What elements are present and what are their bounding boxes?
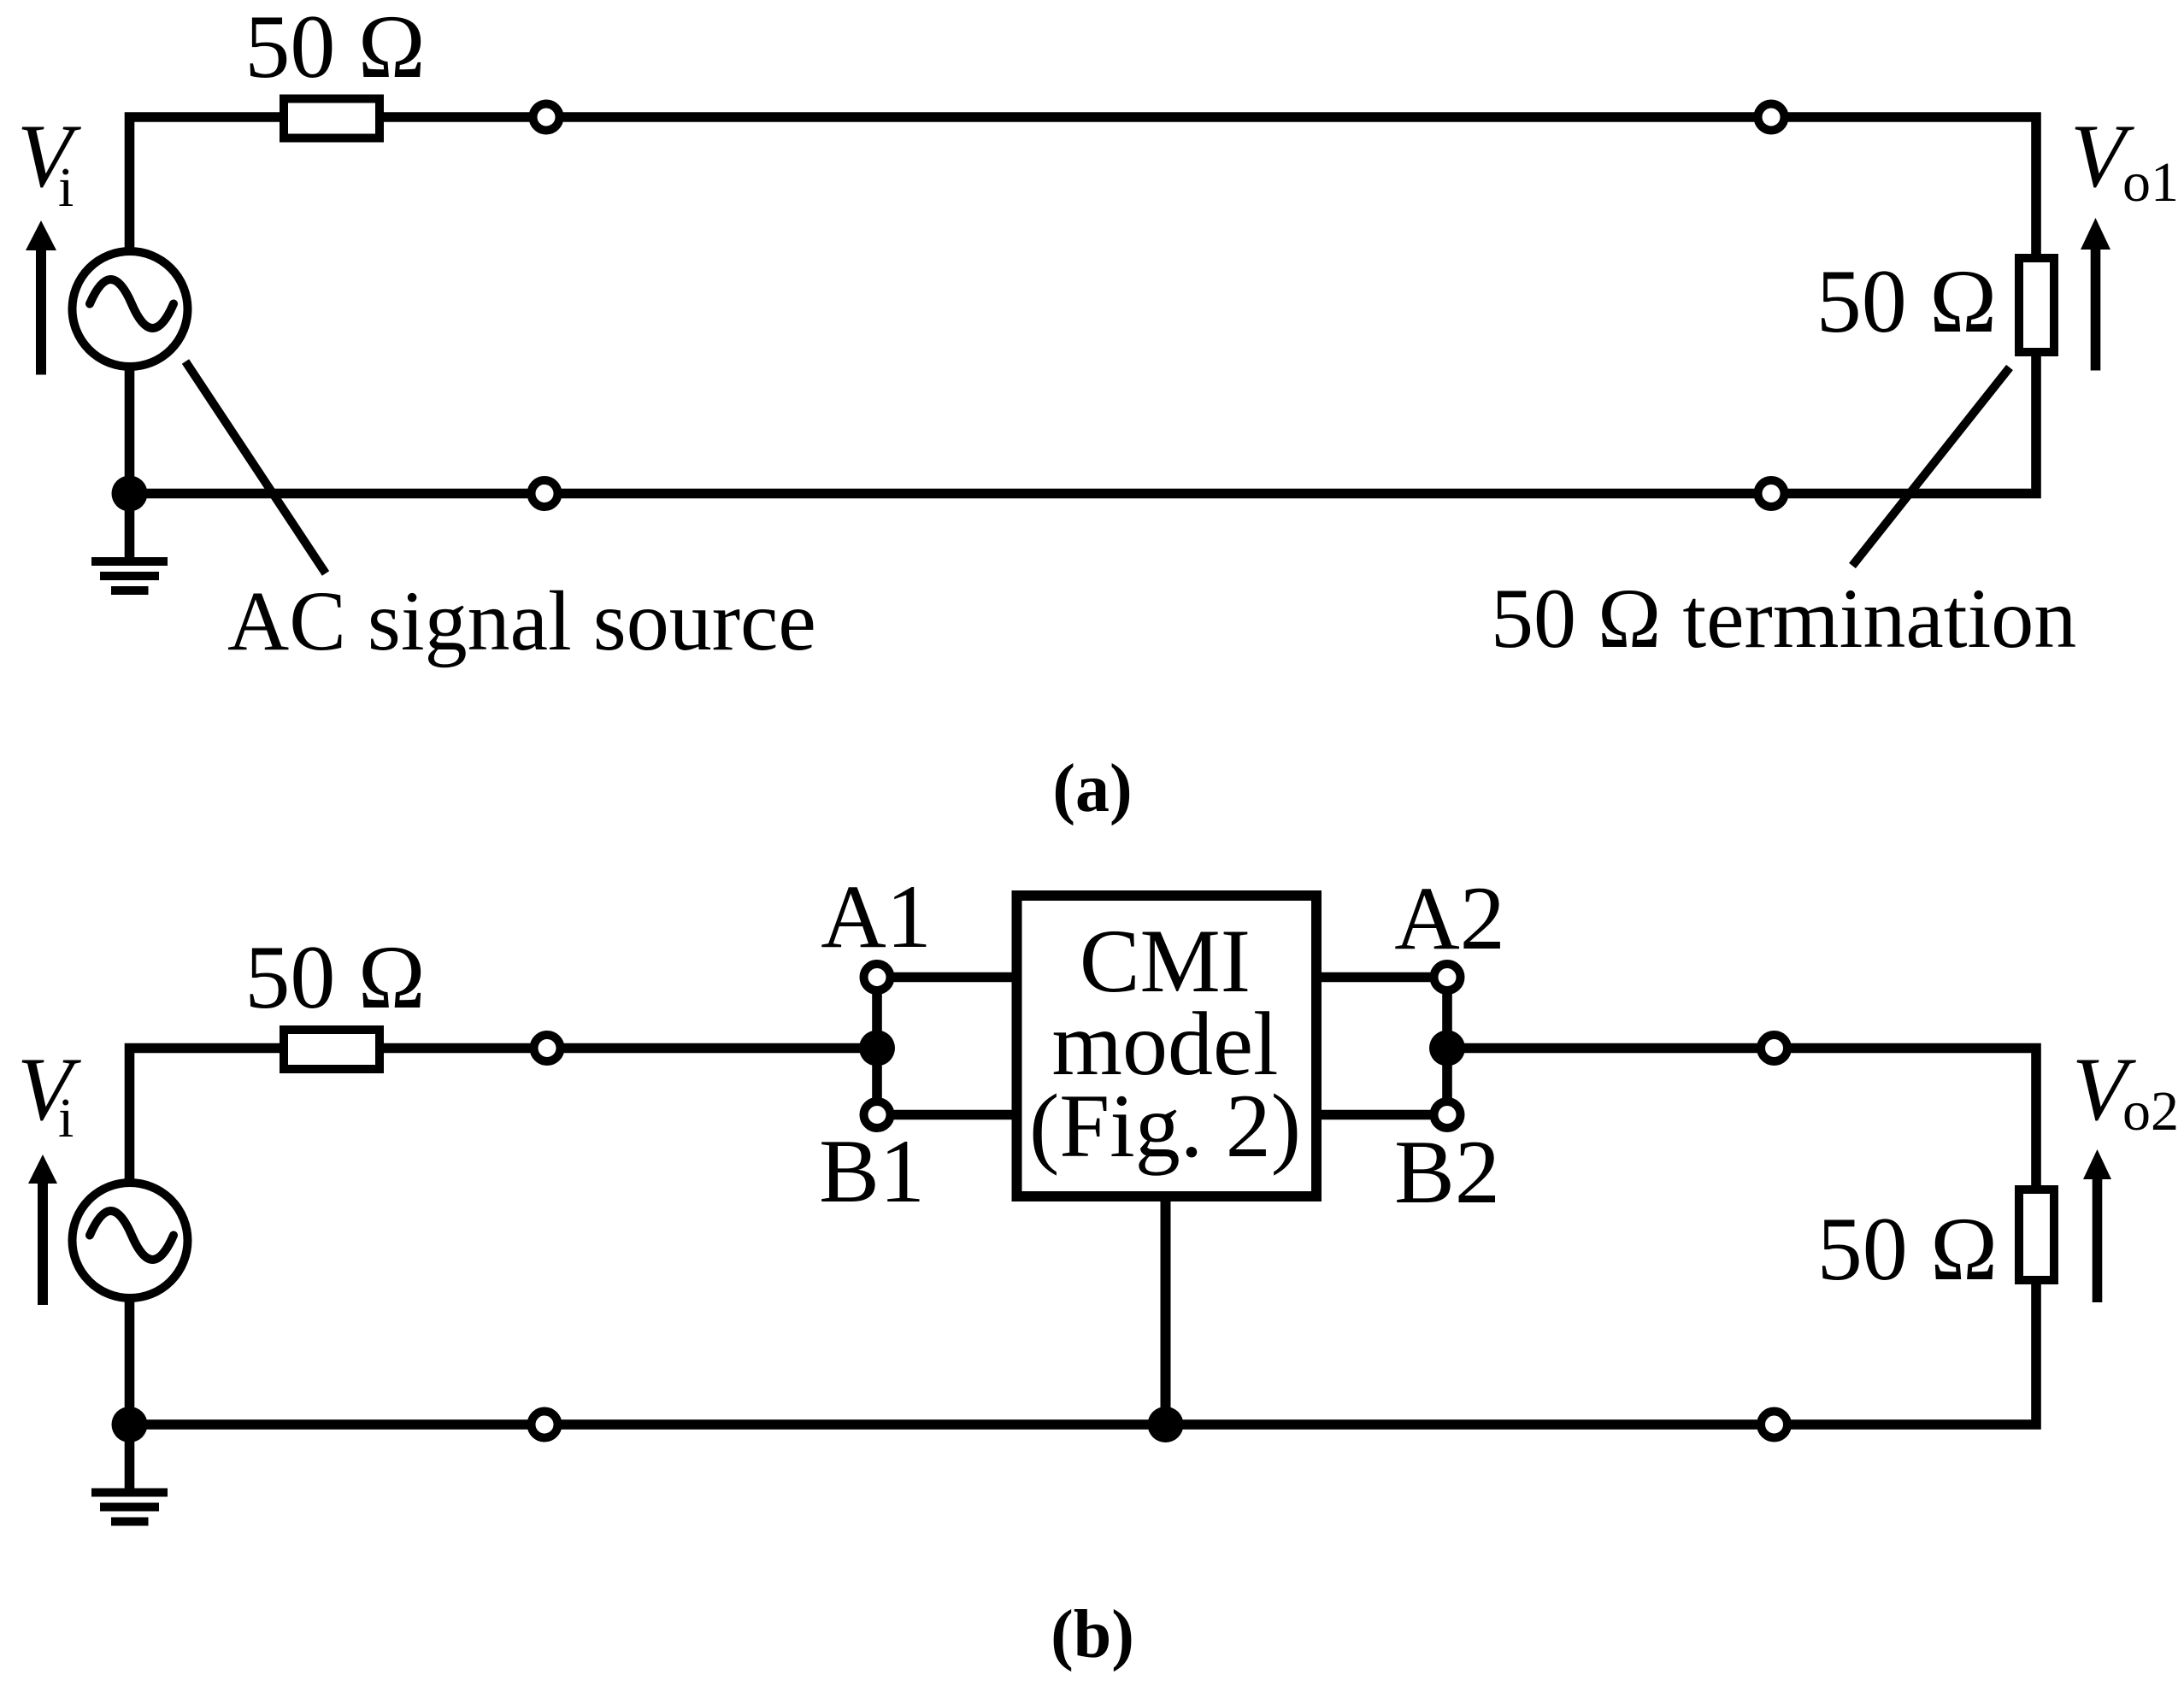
- wire: (b) left A1-B1 vertical link: [872, 978, 882, 1115]
- svg-text:o1: o1: [2122, 151, 2179, 214]
- svg-text:A2: A2: [1394, 868, 1505, 968]
- ground: (a) bar 3: [111, 586, 149, 595]
- arrow: Vo2 polarity (b) head: [2083, 1149, 2111, 1179]
- wire: stub CMI box to A2: [1316, 972, 1436, 983]
- node: terminal circle (b) bottom-left: [532, 1412, 558, 1438]
- resistor R3 50 ohm series (b): [284, 1030, 380, 1069]
- ground: (a) bar 2: [100, 572, 159, 580]
- wire: CMI box ground link to bottom wire: [1161, 1201, 1171, 1425]
- CMI model box: [1017, 896, 1317, 1196]
- arrow: Vi polarity (a) shaft: [36, 248, 46, 375]
- svg-text:(Fig. 2): (Fig. 2): [1029, 1076, 1301, 1176]
- arrow: Vo2 polarity (b) shaft: [2093, 1179, 2103, 1302]
- svg-text:o2: o2: [2122, 1080, 2179, 1143]
- node: terminal circle (a) top-right: [1758, 104, 1785, 131]
- node: terminal circle (b) top-right: [1761, 1035, 1787, 1061]
- svg-text:A1: A1: [821, 867, 932, 966]
- node: terminal circle A2: [1434, 964, 1461, 990]
- svg-text:(a): (a): [1052, 751, 1132, 826]
- svg-text:(b): (b): [1051, 1597, 1134, 1672]
- callout line: AC signal source: [185, 361, 326, 573]
- node: terminal circle A1: [864, 964, 891, 990]
- resistor R1 50 ohm series (a): [284, 99, 380, 138]
- arrow: Vi polarity (b) shaft: [38, 1184, 48, 1305]
- svg-text:50 Ω: 50 Ω: [1817, 1199, 1998, 1299]
- node: terminal circle B2: [1434, 1102, 1461, 1128]
- wire: (b) right A2-B2 vertical link: [1442, 978, 1452, 1115]
- svg-text:B1: B1: [819, 1121, 925, 1221]
- svg-text:50 Ω termination: 50 Ω termination: [1491, 571, 2076, 666]
- arrow: Vi polarity (a) head: [26, 220, 56, 250]
- svg-text:i: i: [58, 156, 74, 219]
- arrow: Vo1 polarity (a) shaft: [2091, 246, 2101, 371]
- AC signal source V2 (b): circle: [73, 1183, 188, 1298]
- wire: (a) main loop (top, right, bottom, left): [130, 117, 2037, 494]
- callout line: 50 ohm termination: [1852, 367, 2010, 566]
- AC signal source V1 (a): circle: [73, 251, 188, 367]
- ground: (a) bar 1: [91, 557, 168, 566]
- arrow: Vi polarity (b) head: [28, 1154, 57, 1184]
- junction: (b) ground node on bottom wire: [112, 1407, 148, 1442]
- node: terminal circle (b) top-left: [534, 1035, 561, 1061]
- junction: (b) left node at A1/B1: [859, 1031, 895, 1066]
- svg-text:50 Ω: 50 Ω: [244, 0, 425, 97]
- node: terminal circle B1: [864, 1102, 891, 1128]
- wire: (b) ground stem: [125, 1425, 135, 1489]
- ground: (b) bar 3: [111, 1518, 149, 1526]
- node: terminal circle (a) top-left: [533, 104, 560, 131]
- junction: (b) bottom wire below CMI box: [1148, 1407, 1184, 1442]
- wire: stub A1 to CMI box: [889, 972, 1017, 983]
- arrow: Vo1 polarity (a) head: [2081, 218, 2110, 250]
- junction: (b) right node at A2/B2: [1429, 1031, 1465, 1066]
- wire: (b) main loop (left top wire, left side, bottom, right side, right top wire): [130, 1049, 2037, 1425]
- ground: (b) bar 2: [100, 1503, 159, 1512]
- AC signal source V1 (a): sine wave: [90, 279, 174, 328]
- svg-text:50 Ω: 50 Ω: [1816, 251, 1997, 351]
- wire: (a) ground stem: [125, 494, 135, 558]
- svg-text:B2: B2: [1394, 1122, 1500, 1222]
- svg-text:AC signal source: AC signal source: [227, 573, 816, 668]
- wire: stub CMI box to B2: [1316, 1110, 1436, 1120]
- resistor R4 50 ohm termination (b): [2019, 1190, 2054, 1280]
- node: terminal circle (b) bottom-right: [1761, 1412, 1787, 1438]
- AC signal source V2 (b): sine wave: [90, 1211, 174, 1260]
- node: terminal circle (a) bottom-left: [532, 480, 558, 507]
- ground: (b) bar 1: [91, 1489, 168, 1497]
- wire: stub B1 to CMI box: [889, 1110, 1017, 1120]
- svg-text:50 Ω: 50 Ω: [244, 927, 425, 1027]
- node: terminal circle (a) bottom-right: [1758, 480, 1785, 507]
- resistor R2 50 ohm termination (a): [2019, 258, 2054, 352]
- svg-text:i: i: [58, 1087, 74, 1149]
- junction: (a) ground node on bottom wire: [112, 476, 148, 512]
